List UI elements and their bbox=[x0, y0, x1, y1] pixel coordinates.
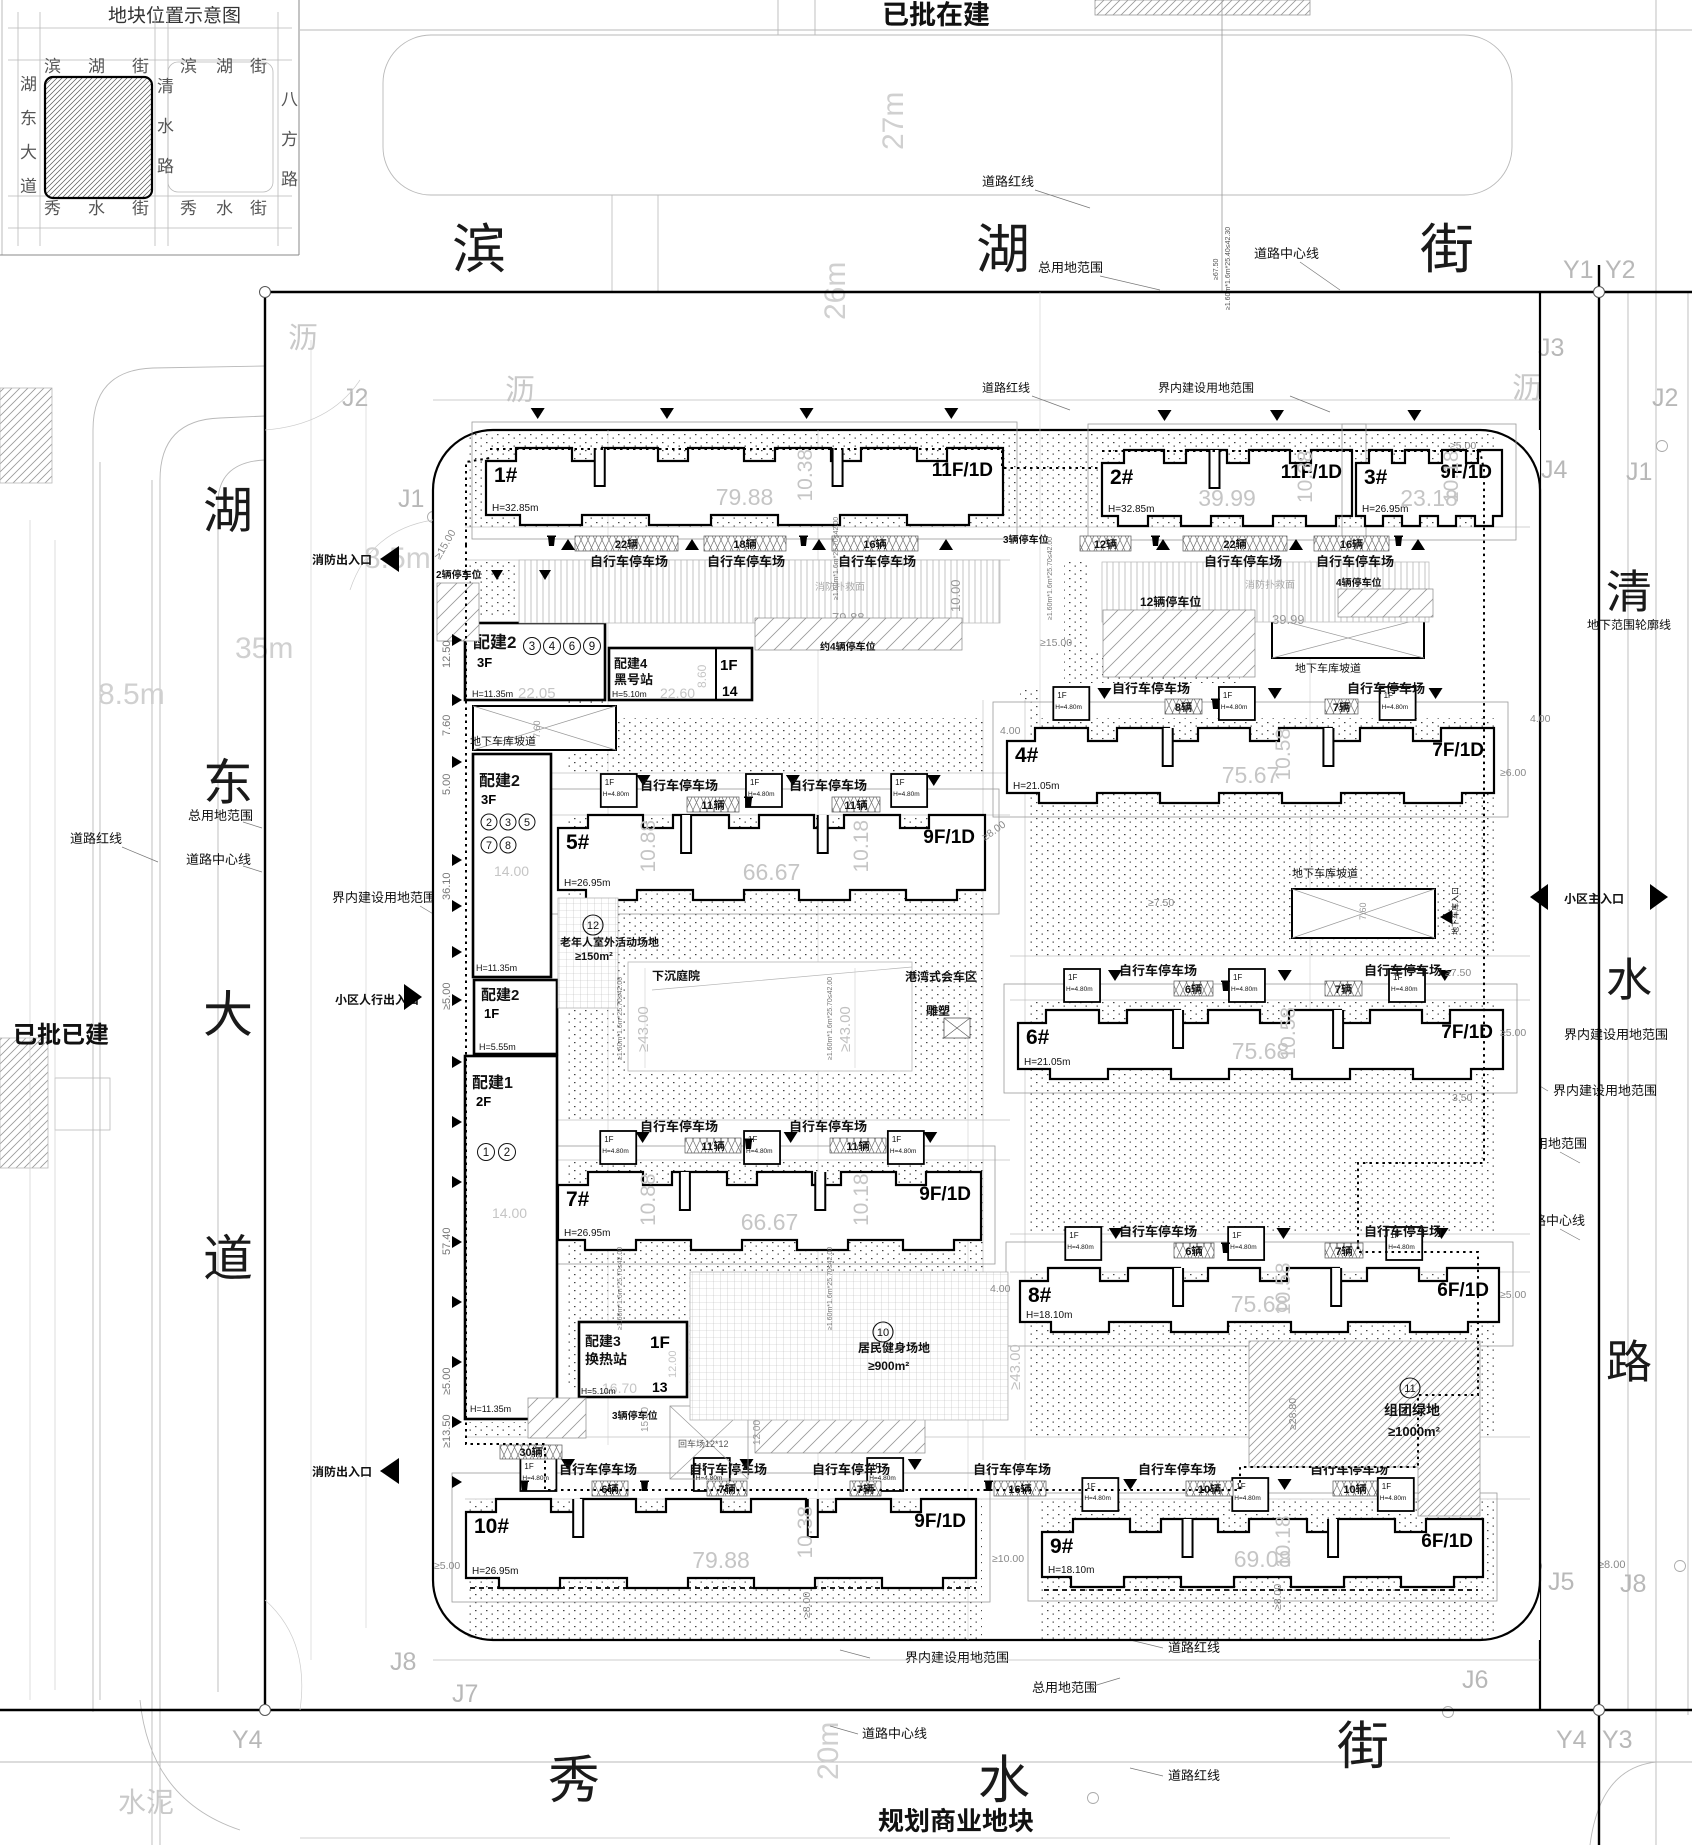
svg-text:J6: J6 bbox=[1462, 1666, 1488, 1694]
svg-text:16: 16 bbox=[863, 539, 875, 551]
svg-text:J4: J4 bbox=[1541, 456, 1568, 484]
svg-text:5#: 5# bbox=[566, 831, 590, 854]
svg-text:1F: 1F bbox=[1086, 1482, 1095, 1491]
svg-text:10.00: 10.00 bbox=[948, 579, 963, 612]
svg-text:H=4.80m: H=4.80m bbox=[893, 791, 920, 798]
svg-text:3: 3 bbox=[612, 1411, 618, 1422]
svg-text:7: 7 bbox=[1333, 702, 1339, 714]
svg-text:H=32.85m: H=32.85m bbox=[1108, 504, 1154, 515]
svg-text:12.00: 12.00 bbox=[752, 1420, 763, 1445]
svg-text:6#: 6# bbox=[1026, 1026, 1050, 1049]
svg-text:≥8.00: ≥8.00 bbox=[1598, 1559, 1625, 1571]
site boundary lines bbox=[265, 291, 1692, 293]
svg-text:6F/1D: 6F/1D bbox=[1421, 1531, 1473, 1552]
svg-text:10.18: 10.18 bbox=[1440, 450, 1463, 503]
svg-text:2: 2 bbox=[511, 773, 520, 790]
svg-text:66.67: 66.67 bbox=[743, 859, 801, 885]
svg-text:H=4.80m: H=4.80m bbox=[602, 1148, 629, 1155]
svg-text:2: 2 bbox=[507, 633, 516, 652]
svg-text:12: 12 bbox=[1094, 539, 1106, 551]
svg-text:J5: J5 bbox=[1548, 1568, 1574, 1596]
svg-text:4: 4 bbox=[640, 656, 648, 671]
svg-text:4.00: 4.00 bbox=[1000, 725, 1021, 737]
svg-text:2: 2 bbox=[504, 1147, 510, 1159]
svg-text:H=11.35m: H=11.35m bbox=[476, 963, 517, 973]
svg-text:7: 7 bbox=[1335, 984, 1341, 996]
svg-text:Y4: Y4 bbox=[1556, 1726, 1587, 1754]
svg-text:H=5.10m: H=5.10m bbox=[612, 689, 647, 699]
svg-text:7F/1D: 7F/1D bbox=[1441, 1022, 1493, 1043]
plazas, activity areas, green space bbox=[628, 962, 912, 1071]
svg-text:6: 6 bbox=[1185, 1246, 1191, 1258]
svg-text:10.18: 10.18 bbox=[850, 820, 873, 873]
inset location map bbox=[298, 0, 300, 255]
svg-text:12.00: 12.00 bbox=[667, 1350, 679, 1378]
svg-text:≥43.00: ≥43.00 bbox=[635, 1006, 652, 1052]
svg-text:1F: 1F bbox=[1223, 691, 1232, 700]
svg-text:H=4.80m: H=4.80m bbox=[1234, 1495, 1261, 1502]
svg-text:22.05: 22.05 bbox=[518, 685, 556, 702]
svg-text:11: 11 bbox=[844, 800, 856, 812]
svg-text:7: 7 bbox=[1335, 1246, 1341, 1258]
svg-text:≥1000m²: ≥1000m² bbox=[1388, 1424, 1441, 1439]
svg-text:10: 10 bbox=[1343, 1484, 1355, 1496]
svg-text:79.88: 79.88 bbox=[692, 1547, 750, 1573]
svg-text:4.00: 4.00 bbox=[1530, 713, 1551, 725]
svg-text:22: 22 bbox=[615, 539, 627, 551]
svg-text:27m: 27m bbox=[877, 92, 910, 150]
svg-text:Y1: Y1 bbox=[1563, 256, 1594, 284]
svg-text:Y3: Y3 bbox=[1602, 1726, 1633, 1754]
svg-text:≥5.00: ≥5.00 bbox=[441, 983, 453, 1010]
svg-text:9F/1D: 9F/1D bbox=[919, 1184, 971, 1205]
svg-text:H=26.95m: H=26.95m bbox=[564, 878, 610, 889]
svg-text:1F: 1F bbox=[892, 1135, 901, 1144]
svg-text:4#: 4# bbox=[1015, 744, 1039, 767]
svg-text:H=4.80m: H=4.80m bbox=[1055, 704, 1082, 711]
svg-text:H=4.80m: H=4.80m bbox=[890, 1148, 917, 1155]
svg-text:11: 11 bbox=[1404, 1383, 1415, 1395]
svg-text:10#: 10# bbox=[474, 1515, 509, 1538]
svg-text:H=4.80m: H=4.80m bbox=[1066, 986, 1093, 993]
svg-text:J1: J1 bbox=[398, 485, 424, 513]
svg-text:10.38: 10.38 bbox=[794, 449, 817, 502]
svg-text:7.60: 7.60 bbox=[441, 715, 453, 736]
ancillary buildings (peijian) bbox=[465, 623, 605, 700]
svg-text:10.38: 10.38 bbox=[1294, 450, 1317, 503]
svg-text:5: 5 bbox=[524, 817, 530, 829]
svg-text:5.00: 5.00 bbox=[441, 774, 453, 795]
svg-text:9F/1D: 9F/1D bbox=[914, 1511, 966, 1532]
svg-text:10.88: 10.88 bbox=[637, 1173, 660, 1226]
svg-text:≥8.00: ≥8.00 bbox=[1272, 1584, 1284, 1610]
svg-text:≥43.00: ≥43.00 bbox=[1007, 1344, 1024, 1390]
svg-text:10: 10 bbox=[877, 1327, 889, 1339]
svg-text:12: 12 bbox=[587, 920, 599, 932]
svg-text:1F: 1F bbox=[1233, 973, 1242, 982]
svg-text:57.40: 57.40 bbox=[441, 1227, 453, 1255]
svg-text:1#: 1# bbox=[494, 464, 518, 487]
svg-text:7F/1D: 7F/1D bbox=[1432, 740, 1484, 761]
svg-text:1F: 1F bbox=[720, 657, 738, 674]
svg-text:≥5.00: ≥5.00 bbox=[441, 1368, 453, 1395]
svg-text:22: 22 bbox=[1223, 539, 1235, 551]
svg-text:3: 3 bbox=[505, 817, 511, 829]
svg-text:4: 4 bbox=[549, 641, 556, 653]
svg-text:≥10.00: ≥10.00 bbox=[992, 1553, 1024, 1565]
residential building 6# 7F/1D bbox=[1004, 984, 1517, 1093]
residential building 4# 7F/1D bbox=[993, 702, 1508, 817]
svg-text:7.60: 7.60 bbox=[1358, 902, 1368, 920]
svg-text:10.18: 10.18 bbox=[850, 1173, 873, 1226]
underground garage ramps bbox=[473, 706, 616, 750]
svg-text:1F: 1F bbox=[895, 778, 904, 787]
residential building 8# 6F/1D bbox=[1006, 1242, 1513, 1346]
svg-text:H=11.35m: H=11.35m bbox=[470, 1404, 511, 1414]
svg-text:H=5.10m: H=5.10m bbox=[581, 1386, 616, 1396]
svg-text:20m: 20m bbox=[812, 1722, 845, 1780]
svg-text:1F: 1F bbox=[1057, 691, 1066, 700]
svg-text:6: 6 bbox=[1185, 984, 1191, 996]
svg-text:≥1.60m*1.6m*25.70≤42.00: ≥1.60m*1.6m*25.70≤42.00 bbox=[827, 1247, 834, 1330]
svg-text:18: 18 bbox=[733, 539, 745, 551]
svg-text:H=21.05m: H=21.05m bbox=[1013, 781, 1059, 792]
svg-text:11F/1D: 11F/1D bbox=[932, 460, 993, 481]
svg-text:2F: 2F bbox=[476, 1094, 491, 1109]
svg-text:H=4.80m: H=4.80m bbox=[746, 1148, 773, 1155]
svg-text:≥6.00: ≥6.00 bbox=[1500, 767, 1526, 779]
svg-text:H=4.80m: H=4.80m bbox=[1221, 704, 1248, 711]
svg-text:J3: J3 bbox=[1538, 334, 1564, 362]
svg-text:H=4.80m: H=4.80m bbox=[1084, 1495, 1111, 1502]
svg-text:66.67: 66.67 bbox=[741, 1209, 799, 1235]
svg-text:10.58: 10.58 bbox=[1272, 728, 1295, 781]
svg-text:≥1.60m*1.6m*25.70≤42.00: ≥1.60m*1.6m*25.70≤42.00 bbox=[827, 977, 834, 1060]
svg-text:13: 13 bbox=[652, 1379, 668, 1395]
surrounding context roads and street names bbox=[300, 29, 1692, 31]
svg-text:10.58: 10.58 bbox=[1272, 1262, 1295, 1315]
residential building 2# 11F/1D bbox=[1088, 424, 1366, 540]
svg-text:16: 16 bbox=[1340, 539, 1352, 551]
svg-text:8: 8 bbox=[1175, 702, 1181, 714]
svg-text:1F: 1F bbox=[604, 1135, 613, 1144]
svg-text:8.5m: 8.5m bbox=[98, 678, 165, 711]
svg-text:14.00: 14.00 bbox=[494, 863, 529, 879]
svg-text:≥1.60m*1.6m*25.70≤42.00: ≥1.60m*1.6m*25.70≤42.00 bbox=[617, 977, 624, 1060]
svg-text:≥15.00: ≥15.00 bbox=[1040, 637, 1072, 649]
svg-text:6: 6 bbox=[569, 641, 575, 653]
svg-text:9F/1D: 9F/1D bbox=[923, 827, 975, 848]
svg-text:1F: 1F bbox=[484, 1006, 499, 1021]
svg-text:H=4.80m: H=4.80m bbox=[1230, 1244, 1257, 1251]
svg-text:7: 7 bbox=[486, 840, 492, 852]
svg-text:J8: J8 bbox=[1620, 1570, 1646, 1598]
svg-text:9#: 9# bbox=[1050, 1535, 1074, 1558]
svg-text:H=26.95m: H=26.95m bbox=[564, 1228, 610, 1239]
svg-text:7#: 7# bbox=[566, 1188, 590, 1211]
svg-text:1F: 1F bbox=[1236, 1482, 1245, 1491]
svg-text:1F: 1F bbox=[650, 1333, 670, 1352]
underground garage outline (dotted) bbox=[466, 545, 1035, 1490]
svg-text:3F: 3F bbox=[481, 792, 496, 807]
svg-text:2#: 2# bbox=[1110, 466, 1134, 489]
svg-text:11: 11 bbox=[846, 1141, 858, 1153]
svg-text:≥5.00: ≥5.00 bbox=[1500, 1027, 1526, 1039]
svg-text:≥1.60m*1.6m*25.70≤42.00: ≥1.60m*1.6m*25.70≤42.00 bbox=[833, 517, 840, 600]
svg-text:H=21.05m: H=21.05m bbox=[1024, 1057, 1070, 1068]
svg-text:H=26.95m: H=26.95m bbox=[472, 1566, 518, 1577]
svg-text:3#: 3# bbox=[1364, 466, 1388, 489]
svg-text:H=32.85m: H=32.85m bbox=[492, 503, 538, 514]
svg-text:1F: 1F bbox=[524, 1462, 533, 1471]
svg-text:11: 11 bbox=[701, 1141, 713, 1153]
svg-text:75.67: 75.67 bbox=[1222, 762, 1280, 788]
svg-text:H=4.80m: H=4.80m bbox=[603, 791, 630, 798]
svg-text:≥28.80: ≥28.80 bbox=[1287, 1398, 1299, 1430]
svg-text:H=4.80m: H=4.80m bbox=[1067, 1244, 1094, 1251]
svg-text:4.00: 4.00 bbox=[990, 1283, 1011, 1295]
svg-text:H=4.80m: H=4.80m bbox=[1231, 986, 1258, 993]
svg-text:H=4.80m: H=4.80m bbox=[1391, 986, 1418, 993]
svg-text:30: 30 bbox=[519, 1447, 531, 1459]
svg-text:≥1.60m*1.6m*25.70≤42.00: ≥1.60m*1.6m*25.70≤42.00 bbox=[1047, 537, 1054, 620]
entrances, markers, dimension annotations bbox=[312, 554, 370, 565]
svg-text:≥5.00: ≥5.00 bbox=[1500, 1289, 1526, 1301]
svg-text:Y2: Y2 bbox=[1605, 256, 1636, 284]
svg-text:8#: 8# bbox=[1028, 1284, 1052, 1307]
svg-text:2: 2 bbox=[436, 570, 442, 581]
svg-text:H=18.10m: H=18.10m bbox=[1026, 1310, 1072, 1321]
svg-text:3F: 3F bbox=[477, 655, 492, 670]
svg-text:H=11.35m: H=11.35m bbox=[472, 689, 513, 699]
svg-text:3: 3 bbox=[613, 1333, 621, 1349]
svg-text:1F: 1F bbox=[1068, 973, 1077, 982]
svg-text:≥5.00: ≥5.00 bbox=[434, 1560, 460, 1572]
residential building 7# 9F/1D bbox=[544, 1146, 995, 1264]
svg-text:10.58: 10.58 bbox=[1277, 1007, 1300, 1060]
svg-text:1F: 1F bbox=[1232, 1231, 1241, 1240]
svg-text:9: 9 bbox=[589, 641, 595, 653]
svg-text:36.10: 36.10 bbox=[441, 872, 453, 900]
svg-text:4: 4 bbox=[830, 642, 836, 653]
svg-text:J8: J8 bbox=[390, 1648, 416, 1676]
svg-text:J7: J7 bbox=[452, 1680, 478, 1708]
svg-text:7.60: 7.60 bbox=[532, 720, 542, 738]
svg-text:≥7.50: ≥7.50 bbox=[1445, 967, 1471, 979]
svg-text:15.00: 15.00 bbox=[640, 1407, 651, 1432]
svg-text:2: 2 bbox=[486, 817, 492, 829]
svg-text:J1: J1 bbox=[1626, 458, 1652, 486]
svg-text:1F: 1F bbox=[1069, 1231, 1078, 1240]
svg-text:1: 1 bbox=[504, 1075, 513, 1092]
residential building 10# 9F/1D bbox=[452, 1473, 990, 1602]
svg-text:≥67.50: ≥67.50 bbox=[1213, 259, 1220, 280]
svg-text:8: 8 bbox=[505, 840, 511, 852]
svg-text:H=4.80m: H=4.80m bbox=[1380, 1495, 1407, 1502]
svg-text:1F: 1F bbox=[750, 778, 759, 787]
svg-text:14: 14 bbox=[722, 683, 738, 699]
svg-text:3.50: 3.50 bbox=[1452, 1092, 1473, 1104]
svg-text:H=4.80m: H=4.80m bbox=[1388, 1244, 1415, 1251]
svg-text:≥7.50: ≥7.50 bbox=[1148, 897, 1174, 909]
svg-text:≥8.00: ≥8.00 bbox=[801, 1592, 813, 1618]
svg-text:≥1.60m*1.6m*25.70≤42.00: ≥1.60m*1.6m*25.70≤42.00 bbox=[617, 1247, 624, 1330]
svg-text:11: 11 bbox=[701, 800, 713, 812]
svg-text:J2: J2 bbox=[1652, 384, 1678, 412]
residential building 9# 6F/1D bbox=[1028, 1493, 1497, 1601]
svg-text:3: 3 bbox=[1003, 535, 1009, 546]
svg-text:10.38: 10.38 bbox=[794, 1506, 817, 1559]
svg-text:1: 1 bbox=[483, 1147, 489, 1159]
svg-text:39.99: 39.99 bbox=[1272, 612, 1305, 627]
svg-text:79.88: 79.88 bbox=[716, 484, 774, 510]
svg-text:1F: 1F bbox=[605, 778, 614, 787]
svg-text:≥150m²: ≥150m² bbox=[575, 951, 613, 963]
svg-text:J2: J2 bbox=[342, 384, 368, 412]
svg-text:≥900m²: ≥900m² bbox=[868, 1359, 909, 1373]
svg-text:≥13.50: ≥13.50 bbox=[441, 1414, 453, 1448]
residential building 5# 9F/1D bbox=[544, 789, 999, 914]
svg-text:10.88: 10.88 bbox=[637, 820, 660, 873]
svg-text:8.60: 8.60 bbox=[695, 664, 709, 688]
svg-text:1F: 1F bbox=[1382, 1482, 1391, 1491]
residential building 3# 9F/1D bbox=[1342, 424, 1516, 540]
svg-text:14.00: 14.00 bbox=[492, 1205, 527, 1221]
svg-text:22.60: 22.60 bbox=[660, 685, 695, 701]
svg-text:3: 3 bbox=[529, 641, 535, 653]
svg-text:12.50: 12.50 bbox=[441, 640, 453, 668]
site ground with stipple texture and internal roads bbox=[433, 430, 1540, 1640]
svg-text:H=5.55m: H=5.55m bbox=[479, 1042, 516, 1052]
svg-text:≥43.00: ≥43.00 bbox=[837, 1006, 854, 1052]
svg-text:39.99: 39.99 bbox=[1198, 485, 1256, 511]
svg-text:≥5.00: ≥5.00 bbox=[1450, 440, 1476, 452]
svg-text:10.18: 10.18 bbox=[1272, 1515, 1295, 1568]
svg-text:H=4.80m: H=4.80m bbox=[1382, 704, 1409, 711]
svg-text:Y4: Y4 bbox=[232, 1726, 263, 1754]
bicycle parking strips, fire lanes, parking stalls bbox=[519, 560, 1000, 623]
svg-text:12*12: 12*12 bbox=[705, 1439, 729, 1449]
svg-text:6F/1D: 6F/1D bbox=[1437, 1280, 1489, 1301]
svg-text:H=18.10m: H=18.10m bbox=[1048, 1565, 1094, 1576]
svg-text:4: 4 bbox=[1336, 578, 1342, 589]
svg-text:1F: 1F bbox=[1390, 1231, 1399, 1240]
svg-text:12: 12 bbox=[1140, 595, 1154, 609]
svg-text:2: 2 bbox=[511, 987, 519, 1004]
residential building 1# 11F/1D bbox=[472, 422, 1017, 539]
svg-text:≥1.60m*1.6m*25.40≤42.30: ≥1.60m*1.6m*25.40≤42.30 bbox=[1225, 227, 1232, 310]
